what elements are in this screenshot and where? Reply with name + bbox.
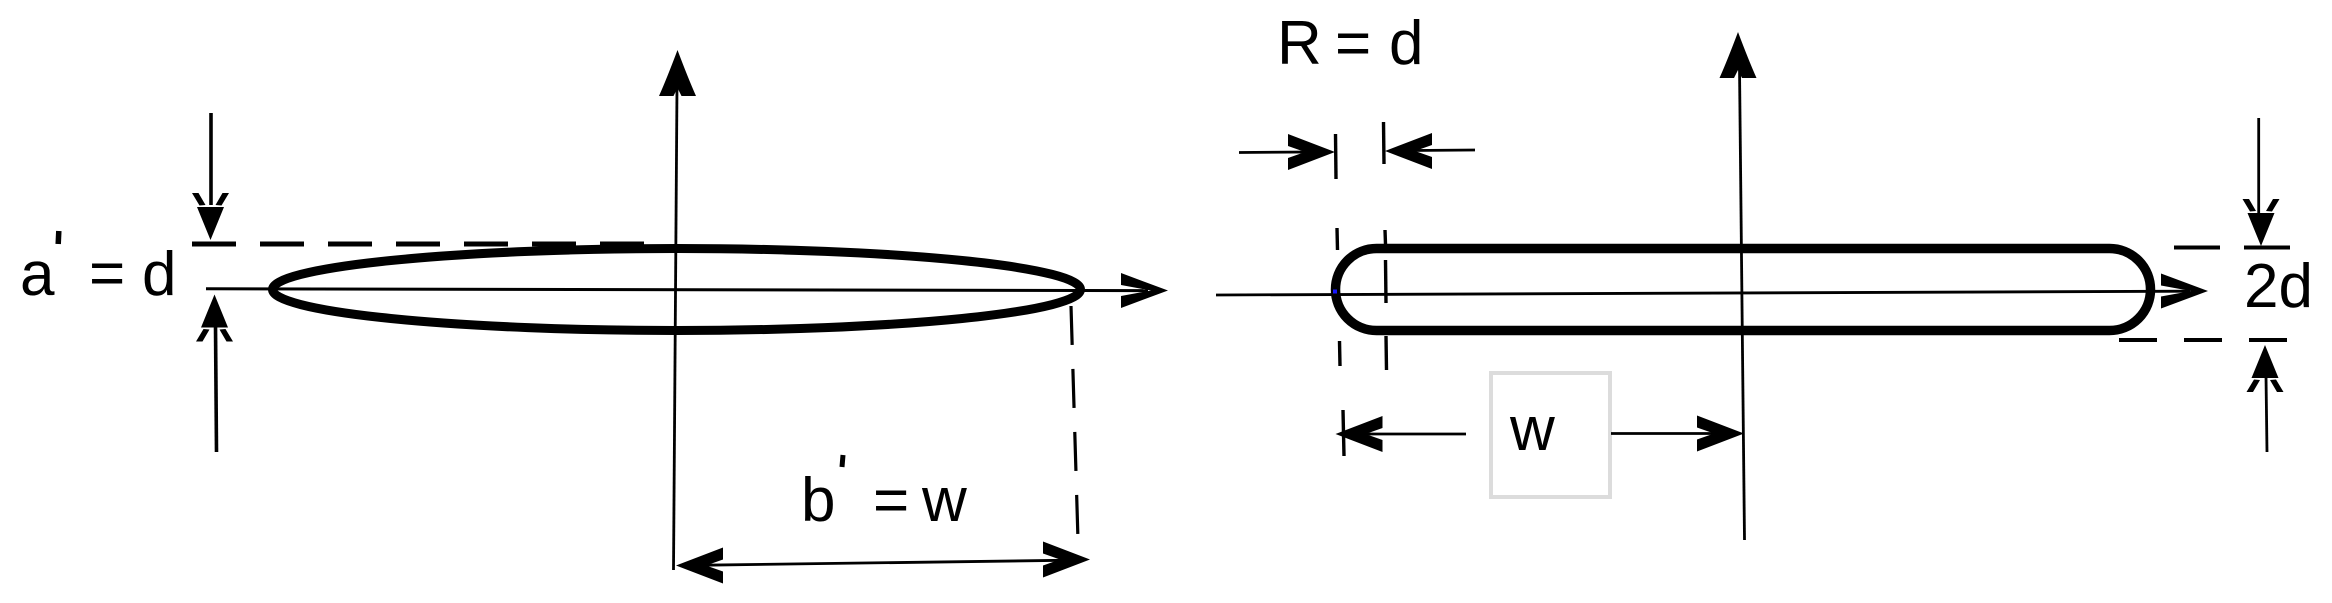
svg-text:d: d	[1389, 9, 1423, 78]
svg-text:2d: 2d	[2244, 252, 2313, 321]
svg-text:=: =	[873, 466, 909, 535]
svg-text:b: b	[801, 466, 835, 535]
svg-text:R: R	[1277, 9, 1322, 78]
svg-text:w: w	[1509, 395, 1555, 464]
svg-text:a: a	[20, 240, 55, 309]
svg-text:=: =	[1335, 9, 1371, 78]
svg-text:d: d	[142, 240, 176, 309]
svg-text:w: w	[921, 466, 967, 535]
svg-text:=: =	[89, 239, 125, 308]
